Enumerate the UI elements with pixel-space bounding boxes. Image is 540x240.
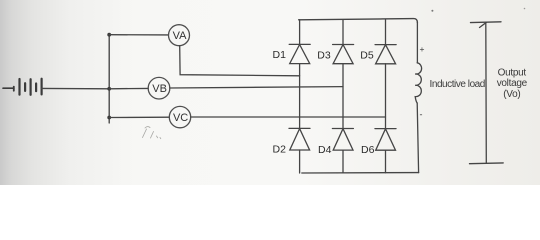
wire leg 1 middle <box>299 64 301 129</box>
label Output voltage (Vo) <box>497 68 528 100</box>
wire vertical bus <box>108 34 110 123</box>
wire leg 2 upper <box>342 20 344 45</box>
diode D1 <box>289 44 310 63</box>
voltmeter VB <box>148 77 170 99</box>
svg-text:D1: D1 <box>273 49 287 61</box>
wire bus to VB <box>109 87 148 89</box>
node C (bus bottom junction) <box>107 116 111 120</box>
speck (scan artifact) <box>431 10 433 12</box>
svg-text:-: - <box>420 110 423 120</box>
diode D6 <box>375 129 396 151</box>
svg-text:D4: D4 <box>318 144 332 156</box>
diode D3 <box>333 45 354 64</box>
output dimension bottom cap <box>470 162 504 165</box>
svg-text:Output: Output <box>498 68 527 79</box>
svg-text:voltage: voltage <box>497 78 528 89</box>
svg-text:D6: D6 <box>361 144 375 156</box>
faint pencil scribble <box>143 127 161 139</box>
wire bus to VC <box>109 116 169 118</box>
wire leg 1 lower <box>299 150 301 173</box>
wire leg 2 lower <box>342 150 344 173</box>
svg-text:Inductive load: Inductive load <box>430 79 485 90</box>
wire VA to bridge leg 1 <box>180 46 300 76</box>
output dimension top cap <box>471 21 502 24</box>
output dimension top tick <box>480 22 487 27</box>
wire right branch upper <box>416 22 418 63</box>
svg-text:D3: D3 <box>317 50 331 62</box>
node A (bus top junction) <box>107 33 111 37</box>
wire battery to bus <box>42 87 110 89</box>
wire VC to bridge leg 3 <box>191 116 386 118</box>
svg-text:VB: VB <box>152 83 167 95</box>
voltmeter VC <box>169 106 190 127</box>
svg-text:D2: D2 <box>273 144 287 156</box>
inductor L1 <box>415 63 421 103</box>
wire right branch lower <box>417 103 418 173</box>
svg-text:VA: VA <box>173 30 188 42</box>
voltmeter VA <box>169 25 190 46</box>
output dimension line vertical <box>485 23 488 164</box>
wire leg 2 middle <box>342 64 344 129</box>
svg-text:+: + <box>420 44 425 54</box>
diode D5 <box>375 45 396 64</box>
battery B1 <box>3 79 42 95</box>
wire leg 3 upper <box>385 19 387 44</box>
wire bottom rail <box>302 172 419 174</box>
node B (bus middle junction) <box>107 87 111 91</box>
wire VB to bridge leg 2 <box>170 87 343 88</box>
diode D4 <box>332 129 353 151</box>
svg-text:D5: D5 <box>360 50 374 62</box>
svg-text:VC: VC <box>173 112 188 124</box>
diode D2 <box>289 128 310 150</box>
wire leg 1 upper <box>299 20 301 45</box>
svg-text:(Vo): (Vo) <box>503 89 520 100</box>
wire leg 3 middle <box>385 64 387 129</box>
wire bus to VA <box>109 34 168 36</box>
speck (scan artifact) <box>524 8 526 10</box>
wire top rail <box>299 19 418 23</box>
wire leg 3 lower <box>385 150 387 173</box>
